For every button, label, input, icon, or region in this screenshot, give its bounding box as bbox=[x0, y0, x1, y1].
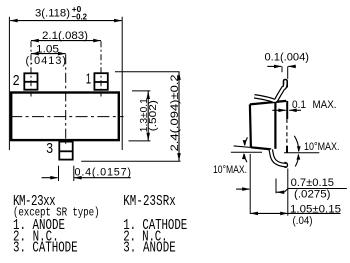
svg-text:−0.2: −0.2 bbox=[72, 11, 88, 21]
extension line at lead3 right edge bbox=[73, 166, 75, 181]
lead 1 centerline bbox=[100, 41, 102, 96]
extension tick lead tip right bbox=[287, 66, 289, 78]
extension tick lead tip left bbox=[281, 66, 283, 72]
svg-text:KM-23SRx: KM-23SRx bbox=[123, 193, 176, 210]
svg-text:3. ANODE: 3. ANODE bbox=[123, 239, 176, 256]
bottom lead (side view) bbox=[271, 150, 288, 168]
side view body right edge upper bbox=[286, 101, 288, 119]
svg-text:10°MAX.: 10°MAX. bbox=[213, 164, 247, 176]
left tilted reference line bbox=[234, 146, 252, 148]
svg-text:0.7±0.15: 0.7±0.15 bbox=[291, 177, 334, 189]
left angle arc upper bbox=[243, 137, 248, 146]
lead 1 (front view) bbox=[94, 73, 109, 90]
svg-text:3. CATHODE: 3. CATHODE bbox=[13, 239, 78, 256]
dimension line 1.3mm bbox=[146, 91, 150, 141]
extension line body bottom level bbox=[129, 140, 151, 142]
dimension line 1.05mm bbox=[31, 52, 66, 56]
extension line lead tip plane bbox=[287, 169, 289, 216]
leader arrow from 0.1 MAX text bbox=[289, 109, 301, 113]
svg-text:0.4(.0157): 0.4(.0157) bbox=[75, 167, 132, 179]
side view body right corner lower bbox=[286, 146, 288, 153]
horizontal centerline of body bbox=[10, 116, 123, 118]
extension tick at lead3 left edge bbox=[58, 166, 60, 181]
arrow left of 0.1(.004) bbox=[267, 65, 282, 69]
leader line under 0.4 text bbox=[74, 176, 131, 180]
extension line lead top level bbox=[115, 71, 180, 73]
side view body top edge bbox=[250, 101, 286, 105]
extension line body left bottom bbox=[249, 154, 251, 214]
extension line left of 3mm dimension bbox=[8, 17, 10, 150]
side view body bottom edge bbox=[251, 147, 271, 149]
arrow left of 0.7 dimension bbox=[236, 187, 250, 191]
dimension line 1.05 with arrows bbox=[250, 212, 340, 216]
svg-text:10°MAX.: 10°MAX. bbox=[304, 141, 340, 153]
package body outline (front view) bbox=[11, 93, 119, 141]
extension line body top level bbox=[132, 90, 150, 92]
dimension line 3mm bbox=[10, 19, 122, 23]
svg-text:2.1(.083): 2.1(.083) bbox=[42, 30, 88, 42]
svg-text:(.04): (.04) bbox=[293, 215, 313, 227]
dimension line 2.4mm bbox=[177, 72, 181, 161]
svg-text:(.0413): (.0413) bbox=[26, 55, 67, 67]
lead 3 (front view) bbox=[59, 142, 74, 160]
side view body right edge dashed bbox=[286, 119, 288, 146]
svg-text:0.1: 0.1 bbox=[292, 99, 306, 111]
arrow to lead3 left edge bbox=[42, 176, 59, 180]
svg-text:0.1(.004): 0.1(.004) bbox=[265, 52, 310, 64]
leader line 0.7 dimension bbox=[276, 189, 347, 195]
svg-text:3: 3 bbox=[46, 140, 53, 157]
svg-text:1.05±0.15: 1.05±0.15 bbox=[290, 204, 341, 216]
svg-text:2.4(.094)±0.2: 2.4(.094)±0.2 bbox=[169, 74, 181, 151]
svg-text:(.0275): (.0275) bbox=[294, 188, 331, 200]
left angle arc lower bbox=[242, 153, 247, 162]
left angle reference line bbox=[231, 151, 262, 153]
svg-text:3(.118): 3(.118) bbox=[35, 8, 70, 20]
vertical centerline of body bbox=[65, 54, 67, 144]
svg-text:1: 1 bbox=[86, 71, 91, 87]
side view body left edge bbox=[250, 104, 251, 147]
svg-text:MAX.: MAX. bbox=[313, 99, 337, 111]
lead 2 centerline bbox=[30, 41, 32, 96]
right angle arc lower bbox=[295, 154, 300, 167]
svg-text:2: 2 bbox=[13, 72, 20, 89]
side view lead exit plane bbox=[274, 101, 276, 149]
leader arrow toward body edge gap bbox=[272, 109, 286, 113]
extension line lead3 bottom level bbox=[81, 160, 180, 162]
lead 2 (front view) bbox=[24, 73, 38, 89]
extension tick lead bend plane bbox=[275, 179, 277, 194]
arrow right of 0.1(.004) bbox=[288, 65, 296, 69]
dimension line 2.1mm bbox=[31, 39, 101, 43]
svg-text:(.502): (.502) bbox=[148, 100, 159, 131]
svg-text:1.05: 1.05 bbox=[36, 44, 59, 56]
right angle reference line bbox=[284, 152, 319, 154]
extension line right of 3mm dimension bbox=[121, 17, 123, 150]
right angle arc upper bbox=[294, 136, 300, 152]
top lead (side view) bbox=[254, 79, 287, 100]
